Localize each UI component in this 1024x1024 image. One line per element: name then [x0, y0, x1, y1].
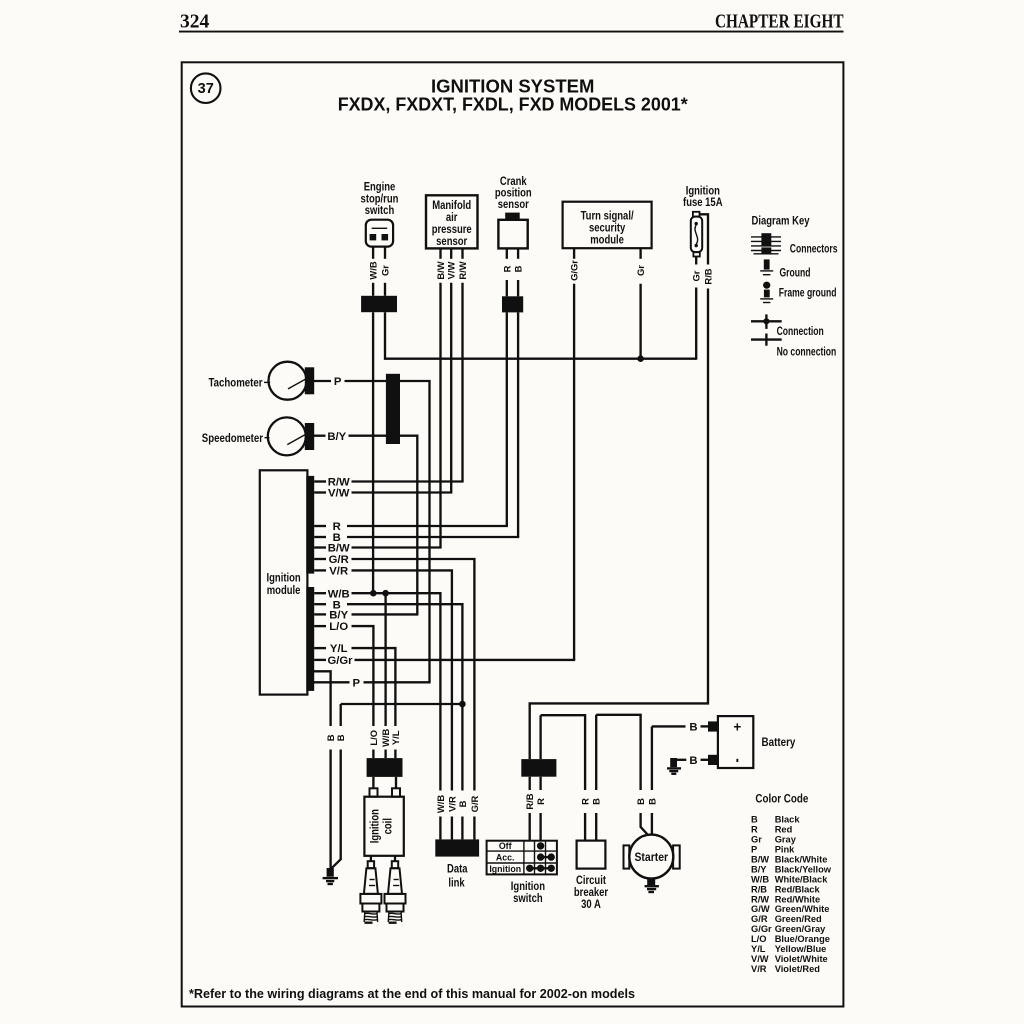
svg-text:*Refer to the wiring diagrams: *Refer to the wiring diagrams at the end… [189, 986, 635, 1001]
wire Gr from engine switch [384, 247, 386, 259]
data link connector block [435, 839, 479, 856]
pin V/W [314, 491, 326, 493]
svg-text:R: R [580, 798, 591, 805]
svg-text:R: R [751, 825, 758, 835]
wire G/Gr pin line to turn signal wire [355, 659, 576, 661]
svg-text:B/Y: B/Y [751, 864, 767, 874]
svg-text:Ground: Ground [780, 266, 811, 279]
wire B pin line then down to junction and data link [347, 604, 462, 790]
key connectors symbol [751, 233, 781, 254]
pin Y/L [314, 647, 326, 649]
wire Gr stub from turn signal module [639, 248, 641, 259]
wire B/W down to module B/W pin [439, 283, 441, 548]
key frame ground symbol [760, 282, 773, 303]
svg-text:Battery: Battery [762, 735, 796, 749]
svg-text:Connectors: Connectors [790, 242, 838, 255]
rail R switch to circuit breaker [541, 715, 586, 759]
svg-text:Red/White: Red/White [775, 894, 820, 904]
svg-text:switch: switch [365, 203, 395, 217]
wire R below connector [539, 777, 541, 790]
svg-text:W/B: W/B [435, 795, 446, 813]
wire V/W stub from manifold sensor [450, 248, 452, 258]
pin P stub [314, 681, 350, 683]
battery ground symbol [667, 758, 681, 774]
wire R/B into switch table [529, 813, 531, 841]
pin L/O [314, 625, 326, 627]
wire W/B from engine switch [372, 247, 374, 259]
wire R stub from crank sensor [506, 248, 508, 258]
svg-text:B/Y: B/Y [329, 610, 348, 622]
wire B left down to ground [329, 750, 331, 870]
svg-text:V/R: V/R [446, 796, 457, 812]
svg-text:L/O: L/O [368, 730, 379, 746]
tachometer gauge [269, 362, 315, 400]
engine stop/run switch S1 body [366, 220, 393, 247]
svg-text:G/Gr: G/Gr [327, 655, 353, 667]
wire B right from rail corner down then angled to ground [340, 704, 342, 726]
wire B continues [517, 280, 519, 296]
key connection symbol [751, 314, 782, 329]
svg-text:No connection: No connection [777, 345, 837, 358]
spark plug 1 [360, 861, 381, 923]
switch contact dot Off [537, 842, 544, 849]
connector block ignition coil [367, 758, 403, 777]
svg-text:Red: Red [775, 825, 793, 835]
wire R/W pin line to manifold wire [352, 480, 464, 482]
connector block engine switch [361, 296, 397, 312]
svg-text:Green/White: Green/White [775, 904, 830, 914]
wire W/B continues to connector [372, 283, 374, 296]
turn signal/security module box [563, 202, 652, 249]
svg-text:R/W: R/W [457, 261, 468, 279]
junction dot module B / rail [459, 701, 466, 708]
wire Gr from fuse down to rail corner [695, 288, 697, 360]
svg-text:+: + [733, 719, 741, 734]
wire L/O pin line then down to coil [352, 626, 374, 726]
svg-text:Y/L: Y/L [751, 944, 766, 954]
svg-text:B: B [646, 798, 657, 805]
svg-text:R: R [535, 798, 546, 805]
svg-text:Gr: Gr [751, 835, 762, 845]
wire V/R into data link [451, 817, 453, 840]
svg-text:Acc.: Acc. [496, 852, 515, 862]
svg-text:switch: switch [513, 891, 543, 905]
svg-text:B/W: B/W [435, 261, 446, 279]
starter M1 [624, 835, 680, 879]
rail from B wire to module B junction [341, 703, 463, 705]
connector block ignition switch [521, 759, 556, 777]
wire B down to module B pin [517, 312, 519, 537]
rail starter right to battery plus [652, 725, 686, 727]
wire B/Y to corner then down to module B/Y pin [349, 436, 418, 615]
svg-text:Yellow/Blue: Yellow/Blue [775, 944, 827, 954]
svg-text:Starter: Starter [634, 850, 668, 864]
wire B starter left lower with angle [641, 813, 649, 836]
svg-text:P: P [751, 845, 757, 855]
wire V/R pin line then down to data link [352, 570, 452, 790]
svg-text:B: B [689, 722, 697, 734]
svg-text:Tachometer: Tachometer [209, 376, 263, 390]
speedometer gauge [268, 417, 314, 455]
svg-text:B: B [751, 815, 758, 825]
wire G/Gr stub from turn signal module [573, 248, 575, 259]
svg-text:Pink: Pink [775, 845, 795, 855]
pin G/Gr [314, 659, 326, 661]
svg-text:Y/L: Y/L [390, 730, 401, 745]
svg-text:Y/L: Y/L [330, 643, 348, 655]
key no-connection symbol [751, 334, 782, 346]
pin W/B [314, 592, 326, 594]
svg-text:Gr: Gr [380, 265, 391, 276]
svg-text:V/W: V/W [751, 954, 769, 964]
pin G/R [314, 558, 326, 560]
wire B to battery minus tab [701, 759, 710, 761]
svg-text:30 A: 30 A [581, 897, 601, 911]
speedometer dash [265, 437, 270, 439]
svg-text:Color Code: Color Code [755, 792, 808, 806]
svg-text:Black/White: Black/White [775, 855, 828, 865]
wire W/B into coil connector [384, 750, 386, 759]
battery BT1 [718, 716, 753, 768]
wire B into breaker [595, 813, 597, 841]
wire B starter right into starter [651, 813, 653, 836]
svg-text:B/W: B/W [751, 855, 769, 865]
svg-text:FXDX, FXDXT, FXDL, FXD MODELS: FXDX, FXDXT, FXDL, FXD MODELS 2001* [338, 94, 689, 115]
wire connector to coil tab left [372, 777, 374, 788]
wire B module bottom stub to ground [314, 671, 331, 726]
wire R ignition switch from rail [539, 715, 541, 759]
wire connector to coil tab right [395, 777, 397, 788]
wire R into breaker [584, 813, 586, 841]
svg-text:324: 324 [180, 12, 210, 33]
svg-text:G/R: G/R [751, 914, 768, 924]
svg-text:Violet/White: Violet/White [775, 954, 828, 964]
manifold air pressure sensor box [426, 195, 478, 248]
battery minus tab [708, 755, 718, 765]
svg-text:Connection: Connection [777, 325, 824, 338]
wire Gr down to junction on Gr rail [639, 284, 641, 359]
wire coil to spark plug 1 [370, 856, 372, 861]
wire G/R into data link [473, 817, 475, 840]
wire W/B down to ignition module W/B pin [372, 312, 374, 593]
wire B starter right from battery rail [651, 726, 653, 790]
wire R/W stub from manifold sensor [461, 248, 463, 258]
svg-text:37: 37 [198, 81, 214, 97]
fuse F1 body [691, 212, 702, 257]
wire B battery minus [677, 759, 686, 761]
svg-text:Ignition: Ignition [489, 864, 521, 874]
color code list [751, 815, 832, 974]
wire G/Gr down to module G/Gr pin [573, 284, 575, 660]
wire L/O into coil connector [372, 750, 374, 759]
wire R/B down right side to ignition switch rail [530, 289, 708, 760]
junction dot W/B engine switch [370, 590, 377, 597]
svg-text:sensor: sensor [436, 234, 467, 248]
wire W/B into data link [439, 817, 441, 840]
wire V/W pin line to manifold wire [352, 491, 453, 493]
pin B/W [314, 546, 326, 548]
wire P from tachometer [314, 380, 331, 382]
wire V/W down to module V/W pin [450, 283, 452, 493]
wire R down to module R pin [506, 312, 508, 526]
figure number circle 37 [191, 73, 221, 103]
svg-text:Ignition: Ignition [368, 809, 382, 843]
svg-text:coil: coil [381, 818, 395, 834]
wire B pin line to crank wire [347, 536, 519, 538]
wire P pin line to tachometer wire [364, 681, 431, 683]
circuit breaker box [577, 841, 606, 869]
svg-text:B: B [635, 798, 646, 805]
svg-text:R/B: R/B [751, 884, 767, 894]
svg-text:Off: Off [499, 841, 512, 851]
svg-text:L/O: L/O [329, 621, 348, 633]
svg-text:V/W: V/W [328, 488, 350, 500]
key ground symbol [760, 259, 773, 274]
wire R/B from fuse top [700, 214, 709, 264]
svg-text:V/R: V/R [751, 964, 767, 974]
connector block crank sensor [502, 296, 523, 312]
svg-text:Black: Black [775, 815, 801, 825]
wire B/Y pin line to speedometer wire [352, 613, 419, 615]
svg-text:module: module [590, 233, 624, 247]
ignition module connector strip lower [306, 587, 314, 691]
svg-text:V/R: V/R [329, 566, 348, 578]
wire R into switch table [539, 813, 541, 841]
svg-text:Diagram Key: Diagram Key [752, 214, 810, 228]
instrument connector block [386, 374, 400, 444]
wire R continues [506, 280, 508, 296]
svg-text:White/Black: White/Black [775, 874, 829, 884]
svg-text:Green/Red: Green/Red [775, 914, 822, 924]
svg-text:fuse 15A: fuse 15A [683, 195, 723, 209]
pin B [314, 536, 326, 538]
junction dot Gr / turn signal module [637, 355, 644, 362]
svg-text:G/Gr: G/Gr [751, 924, 772, 934]
svg-text:G/W: G/W [751, 904, 770, 914]
switch contact dots Acc [537, 853, 555, 860]
svg-text:W/B: W/B [368, 261, 379, 279]
svg-text:W/B: W/B [751, 874, 769, 884]
pin R/W [314, 480, 326, 482]
svg-text:B: B [591, 798, 602, 805]
svg-text:CHAPTER EIGHT: CHAPTER EIGHT [715, 12, 844, 33]
switch contact dots Ignition [526, 865, 555, 872]
svg-text:B: B [689, 755, 697, 767]
pin R [314, 525, 326, 527]
wire Gr continues to connector [384, 283, 386, 296]
svg-text:B/W: B/W [328, 543, 350, 555]
wire Y/L into coil connector [394, 750, 396, 759]
wire R/W down to module R/W pin [461, 283, 463, 482]
svg-text:R/W: R/W [751, 894, 769, 904]
wire W/B junction down to coil [384, 593, 386, 726]
junction dot W/B coil [382, 590, 389, 597]
svg-text:G/Gr: G/Gr [569, 260, 580, 281]
svg-text:R/B: R/B [524, 793, 535, 809]
crank position sensor body [498, 213, 527, 249]
svg-text:sensor: sensor [498, 197, 529, 211]
ground symbol bottom left [323, 868, 338, 884]
svg-text:Data: Data [447, 861, 468, 875]
wire P to corner then down to module P pin [345, 381, 430, 682]
svg-text:Black/Yellow: Black/Yellow [775, 864, 832, 874]
svg-text:Gr: Gr [691, 270, 702, 281]
svg-text:Gray: Gray [775, 835, 797, 845]
svg-text:G/R: G/R [329, 554, 349, 566]
svg-text:Frame ground: Frame ground [779, 286, 837, 299]
svg-text:Speedometer: Speedometer [202, 431, 263, 445]
svg-text:Gr: Gr [635, 265, 646, 276]
wire B circuit breaker from rail [595, 715, 597, 790]
header rule [179, 31, 844, 33]
svg-text:R: R [501, 265, 512, 272]
ignition coil T1 [364, 788, 403, 856]
svg-text:B/Y: B/Y [327, 431, 346, 443]
svg-text:L/O: L/O [751, 934, 767, 944]
wire B/Y from speedometer [314, 435, 326, 437]
wire B to battery plus tab [701, 725, 710, 727]
wire G/R pin line then down to data link [352, 559, 475, 791]
wire B stub from crank sensor [517, 248, 519, 258]
wire Gr stub from fuse bottom [695, 257, 697, 265]
wire B/W stub from manifold sensor [439, 248, 441, 258]
svg-text:Red/Black: Red/Black [775, 884, 821, 894]
wire Gr down then right rail to fuse [385, 312, 696, 359]
figure border frame [182, 62, 844, 1006]
pin B2 [314, 603, 326, 605]
wire B into data link [461, 817, 463, 840]
spark plug 2 [385, 861, 406, 923]
svg-text:Blue/Orange: Blue/Orange [775, 934, 830, 944]
wire coil to spark plug 2 [394, 856, 396, 861]
pin V/R [314, 569, 326, 571]
svg-text:P: P [334, 376, 342, 388]
svg-text:V/W: V/W [446, 262, 457, 280]
svg-text:Violet/Red: Violet/Red [775, 964, 821, 974]
wire R/B below connector [529, 777, 531, 790]
rail breaker B to starter left [596, 715, 640, 790]
starter ground [645, 878, 659, 892]
wire Y/L pin line then down to coil [352, 648, 396, 726]
svg-text:G/R: G/R [469, 795, 480, 812]
svg-text:B: B [457, 800, 468, 807]
wire R pin line to crank wire [347, 525, 508, 527]
ignition switch table [487, 841, 557, 875]
svg-text:P: P [353, 677, 361, 689]
wire W/B pin line then down to data link [352, 593, 441, 790]
ignition module connector strip upper [306, 476, 314, 574]
pin B/Y [314, 613, 326, 615]
svg-text:Green/Gray: Green/Gray [775, 924, 826, 934]
svg-text:link: link [448, 875, 464, 889]
wire B/W pin line to manifold wire [352, 546, 442, 548]
tachometer dash [264, 381, 270, 383]
ignition module box [260, 470, 308, 694]
battery plus tab [708, 721, 718, 731]
svg-text:B: B [513, 265, 524, 272]
svg-text:R/B: R/B [703, 268, 714, 284]
svg-text:B: B [335, 734, 346, 741]
svg-text:module: module [267, 583, 301, 597]
